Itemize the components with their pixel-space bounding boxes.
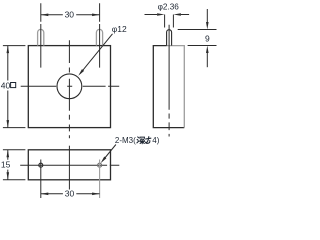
dimension line segments (7, 46, 9, 128)
svg-text:15: 15 (1, 160, 11, 170)
svg-text:9: 9 (205, 34, 210, 44)
extension lines (3, 150, 26, 180)
dim line lower segment (206, 53, 208, 67)
right M3 hole (98, 163, 102, 167)
svg-text:30: 30 (65, 10, 75, 20)
arrow down (206, 22, 209, 30)
arrow right (92, 193, 100, 196)
kana sa drawn strokes (146, 137, 151, 144)
phi2.36 arrow right (points left) (173, 13, 181, 16)
side body outline (dark part) (153, 46, 184, 128)
left M3 hole (39, 163, 43, 167)
M3 leader line (104, 145, 116, 160)
arrow up (7, 150, 10, 158)
right terminal pin (front, grey outline) (96, 29, 102, 45)
arrow left (points left) (41, 14, 49, 17)
M3 leader arrowhead (101, 157, 107, 164)
left pin center/extension line (40, 3, 42, 67)
arrow up (7, 46, 10, 54)
extension lines (3, 46, 26, 128)
arrow up (206, 46, 209, 54)
left hole vertical line / extension (40, 160, 42, 199)
right pin center/extension line (99, 3, 101, 67)
phi2.36 extension lines (165, 15, 174, 28)
kanji fuka (depth) drawn strokes (137, 137, 145, 144)
svg-text:30: 30 (65, 189, 75, 199)
svg-text:40: 40 (1, 80, 11, 90)
phi2.36 dim line tails (145, 14, 190, 16)
phi12 leader line (80, 34, 113, 74)
svg-text:φ12: φ12 (112, 24, 127, 34)
square symbol (11, 83, 16, 88)
bottom body outline (28, 150, 110, 180)
right hole vertical line / extension (grey) (99, 160, 101, 199)
phi2.36 arrow left (points right) (157, 13, 165, 16)
left terminal pin (front, grey outline) (38, 29, 44, 45)
arrow down (7, 120, 10, 128)
dimension 30 (top, pin spacing) (41, 14, 100, 16)
bottom vertical center line (68, 146, 70, 190)
hole circle phi12 (57, 74, 82, 99)
arrow right (points right) (92, 14, 100, 17)
ext line at pin tip (178, 29, 217, 31)
svg-text:2-M3(: 2-M3( (115, 136, 136, 145)
svg-text:φ2.36: φ2.36 (158, 2, 180, 11)
bottom horizontal center line (20, 164, 119, 166)
horizontal center line (front) (21, 85, 120, 87)
phi12 leader arrowhead (78, 69, 84, 76)
side body outline (grey part) (167, 46, 185, 128)
arrow down (7, 172, 10, 180)
front body outline (28, 46, 110, 128)
dim line upper segment (206, 9, 208, 22)
dim line segments (7, 150, 9, 180)
arrow left (41, 193, 49, 196)
svg-text:4): 4) (152, 136, 159, 145)
side center line (168, 25, 170, 137)
side pin outline (167, 30, 172, 46)
ext line at body top (188, 45, 217, 47)
dimension 30 (bottom, hole spacing) (41, 193, 100, 195)
vertical center line (front) (68, 40, 70, 138)
